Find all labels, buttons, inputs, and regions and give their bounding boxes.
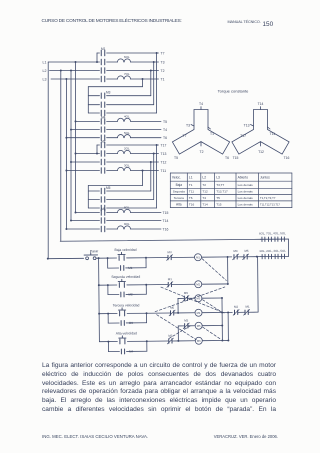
svg-text:T14: T14 <box>258 102 264 106</box>
svg-text:6OL: 6OL <box>124 55 130 59</box>
wire: rung3 to interlocks <box>222 311 232 313</box>
svg-text:T5: T5 <box>216 196 220 200</box>
wire: T3 row <box>131 61 159 63</box>
overload 5OL <box>107 137 118 139</box>
wire: T1 row segment <box>107 78 118 80</box>
wire: T7 to M3 bracket <box>156 53 158 113</box>
seal-in contact M2 <box>108 293 119 295</box>
contactor M2 pole 4 (T11 row) <box>100 168 102 173</box>
contactor M1 pole 1 (T7 row) <box>100 50 102 55</box>
wire: T12 row tap from L2 bus <box>71 161 100 163</box>
coil M5 <box>195 322 202 329</box>
contactor M6 pole 2 (T14 row) <box>100 218 102 223</box>
svg-text:M2: M2 <box>128 292 133 296</box>
wire: T6 row <box>131 137 162 139</box>
svg-text:T7: T7 <box>183 134 187 138</box>
svg-text:T11: T11 <box>161 169 167 173</box>
interlock contact M1 NC (rung3 right) <box>244 310 246 314</box>
mechanical interlock dash rung4 cross <box>169 325 192 338</box>
coil M4 <box>178 312 194 314</box>
rung Baja velocidad: pushbutton box <box>99 257 117 259</box>
wire: T17 row feeder <box>96 145 98 154</box>
svg-text:Parar: Parar <box>90 249 99 253</box>
interlock contact M2 NC (rung3 right) <box>234 310 236 314</box>
contactor M1 pole 3 (T2 row) <box>100 68 102 73</box>
wire: T12 row <box>107 161 159 163</box>
svg-text:T2: T2 <box>161 69 165 73</box>
overload 4OL <box>107 120 118 122</box>
coil M2 <box>195 281 202 288</box>
wire: M3 bus to T1 row <box>88 86 142 88</box>
svg-text:T13: T13 <box>161 152 167 156</box>
interlock contact M3 NC (rung1 right) <box>233 255 235 259</box>
svg-text:M2: M2 <box>168 334 172 338</box>
svg-text:Juntos: Juntos <box>260 175 270 179</box>
wire: M5 bus to T11 row <box>88 185 142 187</box>
svg-text:T6: T6 <box>163 136 167 140</box>
svg-text:Tercera: Tercera <box>174 196 184 200</box>
wire: T14 row <box>107 220 161 222</box>
mechanical interlock dash chevron lower arm <box>157 314 197 340</box>
interlock contact M6 (rung 3 main) <box>147 312 170 314</box>
svg-text:T16: T16 <box>163 228 169 232</box>
pushbutton Parar (NC) <box>48 257 84 259</box>
wire: rung3 return riser <box>257 257 260 312</box>
footer right <box>180 434 278 439</box>
svg-text:L2: L2 <box>202 175 206 179</box>
contactor M3 pole 2 <box>88 104 99 106</box>
svg-text:M6: M6 <box>170 306 174 310</box>
overload 2OL <box>107 153 118 155</box>
svg-text:T2: T2 <box>200 150 204 154</box>
wire: rung4 branch tap <box>177 326 179 341</box>
svg-text:T17: T17 <box>240 134 246 138</box>
mechanical interlock dash M5 <box>203 327 221 339</box>
overload contacts 6OL 7OL 4OL 5OL (top line) <box>261 237 263 241</box>
svg-text:T13: T13 <box>244 124 250 128</box>
wire: T7 row feeder from L1 <box>96 53 98 62</box>
wire: T15 row tap from L1 bus <box>76 212 100 214</box>
wire: bus L3 vertical <box>65 79 67 229</box>
svg-text:T6: T6 <box>189 196 193 200</box>
terminal tick T3 (upper-left) <box>191 125 194 127</box>
contactor M6 pole 3 (T16 row) <box>100 226 102 231</box>
wire: L2 lead <box>50 70 100 72</box>
seal-in contact M3 <box>108 322 119 324</box>
svg-text:Segunda: Segunda <box>173 190 185 194</box>
svg-text:M6: M6 <box>197 339 201 343</box>
svg-text:4OL: 4OL <box>124 115 130 119</box>
mechanical interlock dash M3 <box>202 300 220 312</box>
wire: T3 to M3 bracket <box>153 62 155 105</box>
wire: L3 lead <box>51 78 100 80</box>
svg-text:M2: M2 <box>101 139 106 143</box>
svg-text:Tercera velocidad: Tercera velocidad <box>113 303 140 307</box>
svg-text:6OL, 7OL, 4OL, 5OL: 6OL, 7OL, 4OL, 5OL <box>259 231 286 235</box>
svg-text:L1: L1 <box>43 61 47 65</box>
wire: T12 to M5 bracket <box>150 162 152 191</box>
wire: rung3 branch tap <box>177 298 179 312</box>
interlock contact M5 NC (rung1 right) <box>243 255 245 259</box>
svg-text:T1: T1 <box>189 183 193 187</box>
wire: rung1 to interlocks <box>202 256 232 258</box>
mechanical interlock dash M1-M2 <box>202 258 226 280</box>
svg-text:M2: M2 <box>196 282 200 286</box>
svg-text:8OL: 8OL <box>124 206 130 210</box>
wire: T11 to M5 bracket <box>142 171 144 186</box>
interlock contact M5 (rung 3 branch) <box>178 297 184 299</box>
svg-text:T14: T14 <box>202 202 208 206</box>
wire: T11 row <box>131 170 159 172</box>
svg-text:T15: T15 <box>216 202 222 206</box>
wire: bus L1 vertical <box>75 62 77 213</box>
wire: T5 row tap from L1 bus <box>76 120 100 122</box>
svg-text:Los demás: Los demás <box>238 202 254 206</box>
svg-text:M3: M3 <box>168 250 172 254</box>
overload 9OL <box>107 228 118 230</box>
wire: control top line <box>60 239 260 241</box>
interlock contact M3 (rung 4 branch) <box>178 325 184 327</box>
motor winding diagram winding 2 outline <box>232 110 289 155</box>
wire: control rail from L1 <box>47 62 49 259</box>
svg-text:M1: M1 <box>168 277 172 281</box>
contactor M2 pole 2 (T13 row) <box>100 151 102 156</box>
terminal tick T11 (upper-right) <box>268 127 271 129</box>
terminal tick T2 (bottom center) <box>200 142 202 146</box>
coil M1 <box>194 254 201 261</box>
svg-text:M1: M1 <box>101 47 106 51</box>
svg-text:M4: M4 <box>129 349 134 353</box>
svg-text:T17: T17 <box>161 144 167 148</box>
wire: control line feeder from L2 <box>60 71 62 242</box>
wire: T13 to M5 bracket <box>153 154 155 200</box>
svg-text:T14: T14 <box>163 219 169 223</box>
svg-text:L2: L2 <box>43 69 47 73</box>
svg-text:M4: M4 <box>101 116 106 120</box>
overload contacts 1OL 2OL 3OL 5OL (coil return) <box>261 254 263 258</box>
svg-text:T15: T15 <box>163 211 169 215</box>
svg-text:L3: L3 <box>43 78 47 82</box>
svg-text:T3: T3 <box>161 61 165 65</box>
overload 7OL <box>118 76 131 79</box>
svg-text:Los demás: Los demás <box>238 183 254 187</box>
contactor M3 pole 3 <box>88 112 99 114</box>
wire: T16 row <box>131 228 162 230</box>
svg-text:Veloc.: Veloc. <box>172 175 181 179</box>
svg-text:Alta: Alta <box>176 202 182 206</box>
svg-text:Baja: Baja <box>176 183 183 187</box>
wire: T2 to M3 bracket <box>150 71 152 96</box>
wire: bus L2 vertical <box>70 71 72 221</box>
overload 3OL <box>107 170 118 172</box>
wire: M5 shorting bus <box>87 186 89 209</box>
wire: L1 lead <box>48 61 99 63</box>
overload 8OL <box>107 212 118 214</box>
table: connection table grid <box>170 172 292 174</box>
svg-text:M5: M5 <box>197 324 201 328</box>
svg-text:T1: T1 <box>210 132 214 136</box>
wire: T16 row tap from L3 bus <box>66 228 99 230</box>
svg-text:Alta velocidad: Alta velocidad <box>116 331 137 335</box>
svg-text:L3: L3 <box>216 175 220 179</box>
svg-text:M1: M1 <box>128 266 133 270</box>
svg-text:M1: M1 <box>246 305 250 309</box>
svg-text:M2: M2 <box>234 305 238 309</box>
page number 150 <box>263 21 274 28</box>
wire: T5 row <box>131 120 162 122</box>
contactor M4 pole 1 (T5 row) <box>100 119 102 124</box>
svg-text:2OL: 2OL <box>124 147 130 151</box>
rung Tercera velocidad: pushbutton box <box>99 313 117 315</box>
wire: T2 row <box>107 70 159 72</box>
svg-text:T5: T5 <box>174 156 178 160</box>
interlock contact M3 (rung 1) <box>146 257 167 259</box>
svg-text:T11: T11 <box>270 132 276 136</box>
svg-text:T12: T12 <box>258 150 264 154</box>
seal-in contact M1 <box>108 267 119 269</box>
wire: T3 row segment <box>107 61 118 63</box>
wire: ladder feed vertical <box>98 258 101 341</box>
contactor M3 pole 1 <box>88 95 99 97</box>
terminal tick T13 (upper-left) <box>251 125 254 127</box>
wire: T1 to M3 bracket <box>142 79 144 87</box>
svg-text:Segunda velocidad: Segunda velocidad <box>111 275 140 279</box>
coil M3 <box>195 295 202 302</box>
wire: T1 row <box>131 78 159 80</box>
svg-text:T13,T17: T13,T17 <box>216 190 228 194</box>
svg-text:T5: T5 <box>163 120 167 124</box>
svg-text:M1: M1 <box>196 255 200 259</box>
wire: T11 row tap from L3 bus <box>66 170 99 172</box>
svg-text:T12: T12 <box>161 161 167 165</box>
svg-text:T4: T4 <box>163 128 167 132</box>
svg-text:M5: M5 <box>184 291 188 295</box>
wire: T14 row tap from L2 bus <box>71 220 100 222</box>
svg-text:T3: T3 <box>186 124 190 128</box>
header left <box>42 19 182 24</box>
svg-text:T15: T15 <box>233 156 239 160</box>
svg-text:M4: M4 <box>197 311 201 315</box>
svg-text:Abierto: Abierto <box>238 175 249 179</box>
svg-text:M5: M5 <box>106 186 111 190</box>
coil M6 <box>178 340 194 342</box>
svg-text:T1: T1 <box>161 78 165 82</box>
svg-text:T16: T16 <box>189 202 195 206</box>
contactor M1 pole 4 (T1 row) <box>100 76 102 81</box>
svg-text:T2: T2 <box>202 183 206 187</box>
wire: rung3 branch rejoin <box>202 297 222 299</box>
contactor M2 pole 3 (T12 row) <box>100 159 102 164</box>
svg-text:Los demás: Los demás <box>238 190 254 194</box>
svg-text:T6: T6 <box>225 156 229 160</box>
svg-text:M3: M3 <box>129 321 134 325</box>
terminal tick T14 (top) <box>260 107 262 110</box>
svg-text:7OL: 7OL <box>124 72 130 76</box>
svg-text:T16: T16 <box>284 156 290 160</box>
svg-text:1OL, 2OL, 3OL, 5OL: 1OL, 2OL, 3OL, 5OL <box>259 249 286 253</box>
seal-in contact M4 <box>108 350 119 352</box>
svg-text:M3: M3 <box>196 296 200 300</box>
footer left <box>42 434 148 439</box>
svg-text:5OL: 5OL <box>124 131 130 135</box>
motor winding diagram winding 1 outline <box>172 110 229 155</box>
wire: T7 row <box>107 52 159 54</box>
contactor M5 pole 3 <box>88 207 99 209</box>
wire: M3 shorting bus <box>87 87 89 113</box>
header right <box>228 20 261 24</box>
interlock contact M2 (rung 4 main) <box>147 340 168 342</box>
overload 6OL <box>118 59 131 62</box>
contactor M6 pole 1 (T15 row) <box>100 210 102 215</box>
svg-text:M3: M3 <box>106 91 111 95</box>
svg-text:M3: M3 <box>234 249 238 253</box>
svg-text:T4: T4 <box>202 196 206 200</box>
paragraph <box>42 362 276 415</box>
wire: T13 row tap from L1 bus <box>76 153 100 155</box>
wire: rung4 branch rejoin <box>203 324 223 326</box>
wire: T6 row tap from L3 bus <box>66 137 99 139</box>
mechanical interlock dash M2 to rung3 <box>161 286 224 313</box>
wire: rung2 to rung1 connector <box>202 283 228 285</box>
rung Alta velocidad: pushbutton box <box>99 341 117 343</box>
svg-text:T3,T7: T3,T7 <box>216 183 224 187</box>
svg-text:L1: L1 <box>189 175 193 179</box>
svg-text:T12: T12 <box>202 190 208 194</box>
terminal tick T4 (top) <box>200 107 202 110</box>
contactor M5 pole 1 <box>88 190 99 192</box>
svg-text:T7: T7 <box>161 52 165 56</box>
wire: right rail drop <box>287 239 289 256</box>
wire: T15 row <box>131 212 162 214</box>
rung Segunda velocidad: pushbutton box <box>99 284 117 286</box>
svg-text:3OL: 3OL <box>124 164 130 168</box>
svg-text:Torque constante: Torque constante <box>218 89 249 94</box>
contactor M2 pole 1 (T17 row) <box>100 142 102 147</box>
svg-text:Los demás: Los demás <box>238 196 254 200</box>
mechanical interlock dash rung3 to rung2 <box>155 287 225 312</box>
svg-text:T1,T2,T3,T7: T1,T2,T3,T7 <box>260 196 276 200</box>
svg-text:M5: M5 <box>245 249 249 253</box>
terminal tick T12 (bottom center) <box>260 142 262 146</box>
wire: T4 row <box>107 129 161 131</box>
contactor M4 pole 2 (T4 row) <box>100 127 102 132</box>
terminal tick T1 (upper-right) <box>208 127 211 129</box>
wire: T4 row tap from L2 bus <box>71 129 100 131</box>
contactor M4 pole 3 (T6 row) <box>100 135 102 140</box>
wire: T13 row <box>131 153 159 155</box>
svg-text:T4: T4 <box>199 102 203 106</box>
interlock contact M1 (rung 2) <box>146 284 167 286</box>
wire: rung4 riser to rung3 <box>222 339 228 341</box>
contactor M1 pole 2 (T3 row) <box>100 59 102 64</box>
svg-text:M3: M3 <box>184 319 188 323</box>
svg-text:Baja velocidad: Baja velocidad <box>114 248 136 252</box>
wire: T17 to M5 bracket <box>156 145 158 208</box>
svg-text:9OL: 9OL <box>124 222 130 226</box>
contactor M5 pole 2 <box>88 199 99 201</box>
svg-text:T11: T11 <box>189 190 194 194</box>
wire: T17 row <box>107 144 159 146</box>
svg-text:M6: M6 <box>101 207 106 211</box>
svg-text:T11,T12,T13,T17: T11,T12,T13,T17 <box>260 202 280 206</box>
